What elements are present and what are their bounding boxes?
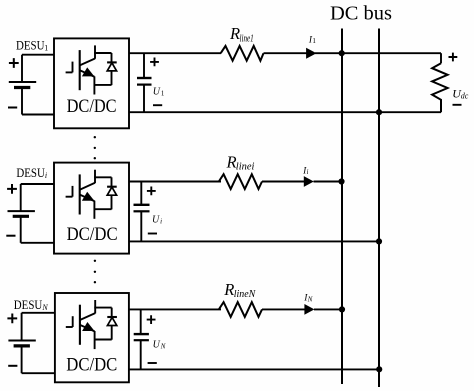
svg-text:N: N <box>160 343 166 351</box>
svg-text:DESU: DESU <box>16 39 45 53</box>
svg-text:U: U <box>153 340 161 351</box>
svg-text:U: U <box>153 86 161 97</box>
svg-text:DESU: DESU <box>14 298 43 312</box>
svg-text:DESU: DESU <box>16 166 45 180</box>
svg-text:1: 1 <box>44 43 48 52</box>
svg-text:N: N <box>41 303 48 312</box>
svg-text:lineN: lineN <box>234 289 257 300</box>
svg-text:1: 1 <box>161 89 165 97</box>
svg-text:DC/DC: DC/DC <box>67 225 118 245</box>
svg-text:dc: dc <box>461 91 469 100</box>
svg-text:DC/DC: DC/DC <box>66 355 117 375</box>
svg-text:1: 1 <box>312 37 316 45</box>
svg-text:R: R <box>223 280 234 299</box>
svg-text:DC bus: DC bus <box>330 2 392 24</box>
svg-text:R: R <box>229 24 240 43</box>
svg-text:DC/DC: DC/DC <box>67 97 117 117</box>
svg-text:i: i <box>45 171 47 180</box>
svg-text:i: i <box>307 168 309 176</box>
svg-text:line1: line1 <box>240 34 254 45</box>
svg-text:linei: linei <box>236 162 255 173</box>
svg-text:i: i <box>160 218 162 226</box>
svg-text:U: U <box>152 215 160 226</box>
svg-text:N: N <box>307 295 313 303</box>
